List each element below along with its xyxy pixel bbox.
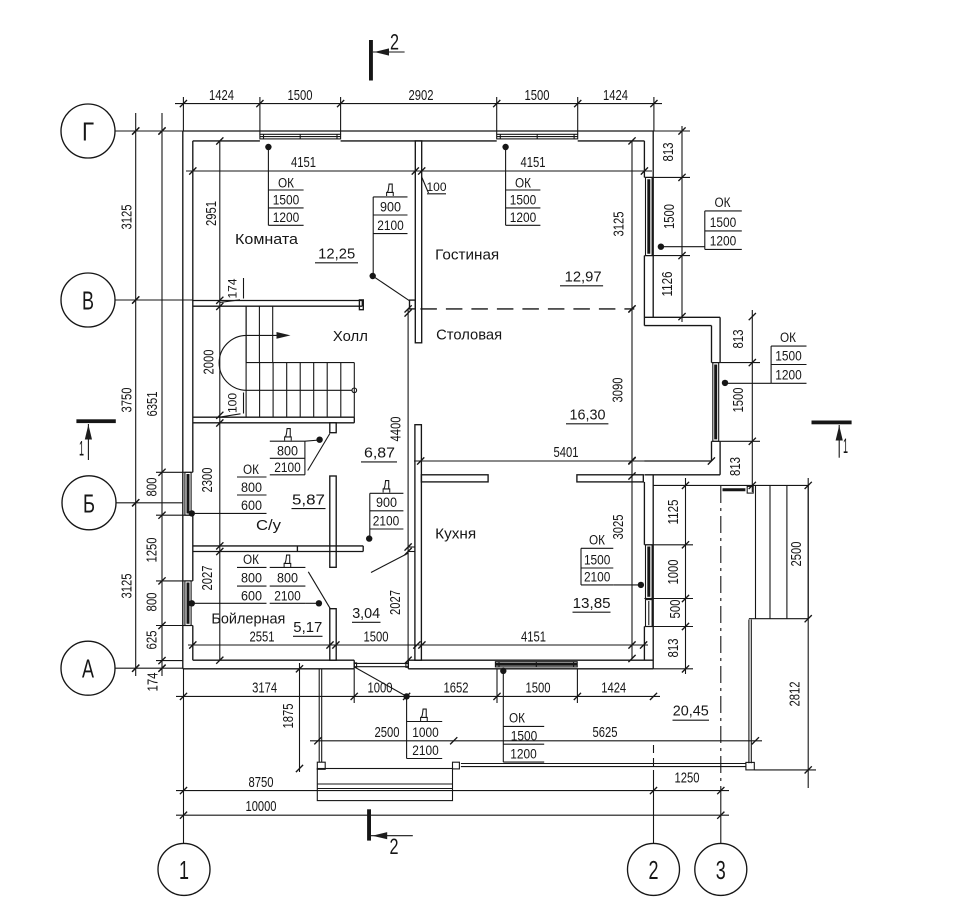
dim chain 8750/1250 bbox=[176, 770, 729, 795]
svg-text:2100: 2100 bbox=[584, 569, 611, 584]
svg-text:2027: 2027 bbox=[199, 566, 216, 591]
dim chain terrace 2500/2812 bbox=[754, 478, 816, 788]
axis circle 2 bbox=[628, 843, 680, 895]
svg-text:Д: Д bbox=[284, 426, 292, 441]
area 12,25 bbox=[315, 247, 358, 263]
svg-text:100: 100 bbox=[226, 393, 240, 413]
svg-text:3750: 3750 bbox=[119, 388, 136, 413]
stair upper flight treads bbox=[246, 306, 273, 362]
svg-text:2100: 2100 bbox=[373, 513, 400, 528]
svg-text:3125: 3125 bbox=[611, 212, 628, 237]
svg-text:С/у: С/у bbox=[256, 517, 282, 534]
wall left outer face bbox=[182, 131, 184, 669]
svg-text:Д: Д bbox=[383, 478, 391, 493]
wall east outer face bbox=[652, 131, 654, 669]
svg-text:1424: 1424 bbox=[601, 680, 626, 697]
dashed line Гостиная-Столовая bbox=[420, 305, 635, 312]
axis 1 line bottom bbox=[183, 669, 185, 843]
label box OK east Кухня bbox=[581, 533, 644, 588]
svg-text:800: 800 bbox=[241, 570, 262, 585]
section marker 1 left bbox=[76, 419, 115, 460]
svg-text:Г: Г bbox=[82, 117, 94, 147]
svg-text:800: 800 bbox=[144, 478, 161, 497]
window OK left Бойлерная 800x600 bbox=[183, 581, 193, 626]
label box OK window Комната bbox=[265, 144, 303, 226]
svg-text:Кухня: Кухня bbox=[435, 526, 476, 543]
svg-text:174: 174 bbox=[226, 278, 240, 298]
room Столовая bbox=[436, 327, 502, 344]
svg-text:2100: 2100 bbox=[274, 588, 301, 603]
svg-text:2: 2 bbox=[390, 834, 399, 859]
axis Б line bbox=[116, 499, 183, 506]
axis circle 3 bbox=[695, 843, 747, 895]
svg-text:Комната: Комната bbox=[235, 231, 299, 248]
svg-text:3025: 3025 bbox=[610, 515, 627, 540]
dim interior left 2951/2000/2300/2027 bbox=[199, 137, 224, 663]
bay bottom wall bbox=[644, 461, 720, 475]
svg-text:1: 1 bbox=[843, 435, 848, 458]
svg-text:600: 600 bbox=[241, 498, 262, 513]
svg-text:1500: 1500 bbox=[273, 193, 300, 208]
axis circle А bbox=[61, 641, 115, 695]
svg-text:2551: 2551 bbox=[250, 628, 275, 645]
svg-text:1200: 1200 bbox=[510, 210, 537, 225]
window OK left Су 800x600 bbox=[183, 472, 193, 515]
area 20,45 bbox=[673, 704, 710, 721]
svg-text:2100: 2100 bbox=[274, 460, 301, 475]
dim interior 4400/2027 bbox=[387, 305, 415, 664]
door leaf Д1000 entrance bbox=[354, 667, 406, 697]
door leaf Д900 Холл-Столовая bbox=[373, 276, 410, 301]
svg-text:А: А bbox=[82, 654, 94, 684]
svg-text:8750: 8750 bbox=[249, 774, 274, 791]
door jamb Д900 top bbox=[410, 300, 416, 309]
svg-text:1: 1 bbox=[79, 438, 84, 461]
room Комната bbox=[235, 231, 299, 248]
svg-text:12,97: 12,97 bbox=[565, 270, 602, 286]
svg-text:1250: 1250 bbox=[144, 538, 161, 563]
svg-text:3,04: 3,04 bbox=[352, 606, 380, 622]
svg-text:2: 2 bbox=[649, 855, 659, 885]
svg-text:4400: 4400 bbox=[388, 417, 405, 442]
svg-text:ОК: ОК bbox=[509, 711, 525, 726]
svg-text:813: 813 bbox=[660, 143, 677, 162]
entrance threshold bbox=[354, 663, 408, 667]
area 12,97 bbox=[560, 270, 603, 286]
svg-text:4151: 4151 bbox=[521, 628, 546, 645]
section marker 1 right bbox=[812, 421, 852, 459]
svg-text:3174: 3174 bbox=[252, 680, 277, 697]
svg-text:Б: Б bbox=[83, 488, 95, 518]
label box OK Су bbox=[189, 462, 267, 517]
dim chain bay 813/1500/813 bbox=[720, 310, 760, 492]
svg-text:1000: 1000 bbox=[412, 725, 439, 740]
svg-text:Гостиная: Гостиная bbox=[435, 247, 499, 264]
terrace steps right bbox=[749, 485, 808, 618]
svg-text:10000: 10000 bbox=[246, 798, 277, 815]
svg-text:1200: 1200 bbox=[510, 747, 537, 762]
terrace east edge bbox=[749, 620, 751, 764]
dim chain left 3125/3750/3125 bbox=[119, 113, 140, 676]
svg-text:Холл: Холл bbox=[333, 328, 368, 345]
svg-text:ОК: ОК bbox=[243, 552, 259, 567]
svg-text:2027: 2027 bbox=[387, 590, 404, 615]
svg-text:3125: 3125 bbox=[119, 574, 136, 599]
svg-text:1500: 1500 bbox=[584, 552, 611, 567]
dim chain bottom 3174/1000/1652/1500/1424 bbox=[176, 669, 660, 703]
svg-text:6351: 6351 bbox=[144, 392, 161, 417]
svg-text:5,87: 5,87 bbox=[292, 492, 325, 508]
room Гостиная bbox=[435, 247, 499, 264]
dim chain 10000 bbox=[176, 798, 729, 819]
svg-text:1000: 1000 bbox=[665, 560, 682, 585]
svg-text:2100: 2100 bbox=[412, 743, 439, 758]
svg-text:1652: 1652 bbox=[444, 680, 469, 697]
svg-text:3090: 3090 bbox=[610, 378, 627, 403]
partition Кухня north left bbox=[421, 475, 488, 482]
bay window 1500 bbox=[712, 363, 721, 442]
axis 3 line bottom bbox=[720, 486, 722, 843]
svg-text:100: 100 bbox=[427, 180, 447, 194]
label box Д800 Су bbox=[270, 426, 323, 475]
svg-text:4151: 4151 bbox=[521, 154, 546, 171]
area 6,87 bbox=[361, 446, 397, 462]
label box OK east Гостиная bbox=[658, 195, 742, 250]
label box Д1000 entrance bbox=[403, 693, 442, 758]
svg-text:800: 800 bbox=[144, 593, 161, 612]
svg-text:1875: 1875 bbox=[280, 704, 297, 729]
room Бойлерная bbox=[211, 611, 285, 628]
door jamb Су bbox=[330, 423, 336, 433]
svg-text:2500: 2500 bbox=[375, 724, 400, 741]
svg-text:1500: 1500 bbox=[710, 215, 737, 230]
axis circle Г bbox=[61, 104, 115, 158]
room Холл bbox=[333, 328, 368, 345]
svg-text:900: 900 bbox=[376, 495, 397, 510]
svg-text:2: 2 bbox=[390, 30, 399, 55]
svg-text:1500: 1500 bbox=[526, 680, 551, 697]
axis circle Б bbox=[62, 476, 116, 530]
axis circle 1 bbox=[158, 843, 210, 895]
svg-text:ОК: ОК bbox=[515, 175, 531, 190]
partition Кухня north right bbox=[577, 475, 643, 482]
svg-text:1500: 1500 bbox=[288, 87, 313, 104]
svg-text:16,30: 16,30 bbox=[570, 408, 606, 424]
svg-text:900: 900 bbox=[380, 200, 401, 215]
label box Д800 Бойлерная bbox=[270, 552, 322, 607]
dim chain top 1424/1500/2902/1500/1424 bbox=[175, 87, 662, 135]
axis 2 line bottom bbox=[653, 745, 655, 843]
svg-text:800: 800 bbox=[241, 480, 262, 495]
porch post left bbox=[317, 762, 325, 769]
area 16,30 bbox=[566, 408, 608, 424]
door jamb end Комната bbox=[359, 300, 363, 310]
svg-text:1500: 1500 bbox=[364, 628, 389, 645]
svg-text:6,87: 6,87 bbox=[364, 446, 395, 462]
area 13,85 bbox=[573, 596, 611, 612]
section marker 2 top bbox=[369, 30, 405, 81]
svg-text:ОК: ОК bbox=[243, 462, 259, 477]
partition Холл-Су bbox=[193, 417, 354, 423]
porch steps outline bbox=[317, 769, 452, 801]
dim chain left 6351/800/1250/800/625/174 bbox=[144, 113, 183, 692]
svg-text:813: 813 bbox=[727, 457, 744, 476]
svg-text:600: 600 bbox=[241, 588, 262, 603]
svg-text:1424: 1424 bbox=[209, 87, 234, 104]
area 3,04 bbox=[352, 606, 381, 622]
axis А line bbox=[115, 665, 183, 672]
area 5,17 bbox=[293, 620, 323, 636]
partition Су-Бойлерная bbox=[193, 546, 363, 552]
svg-text:Д: Д bbox=[420, 706, 428, 721]
svg-text:5,17: 5,17 bbox=[293, 620, 322, 636]
wall top outer face (axis Г) bbox=[183, 130, 654, 132]
label box OK bay bbox=[722, 330, 807, 386]
dim interior 4151 4151 bbox=[186, 154, 652, 175]
dim interior 5401 bbox=[414, 444, 715, 465]
section marker 2 bottom bbox=[367, 809, 413, 859]
svg-text:1500: 1500 bbox=[775, 349, 802, 364]
svg-text:1000: 1000 bbox=[368, 680, 393, 697]
svg-text:800: 800 bbox=[277, 443, 298, 458]
svg-text:Д: Д bbox=[386, 181, 394, 196]
svg-text:3: 3 bbox=[716, 855, 726, 885]
svg-text:174: 174 bbox=[145, 673, 162, 692]
svg-text:1125: 1125 bbox=[665, 500, 682, 525]
window OK east (Гостиная) 1500x1200 bbox=[644, 177, 653, 255]
svg-text:1500: 1500 bbox=[661, 204, 678, 229]
axis В line bbox=[115, 296, 193, 303]
room Кухня bbox=[435, 526, 476, 543]
axis circle В bbox=[61, 273, 115, 327]
dim interior right 3125/3090/3025 bbox=[610, 137, 636, 662]
partition central upper 100 bbox=[415, 141, 421, 343]
area 5,87 bbox=[292, 492, 326, 508]
svg-text:800: 800 bbox=[277, 570, 298, 585]
svg-text:5401: 5401 bbox=[554, 444, 579, 461]
wall Су east upper bbox=[330, 476, 336, 567]
svg-text:813: 813 bbox=[730, 330, 747, 349]
svg-text:1250: 1250 bbox=[675, 770, 700, 787]
svg-text:4151: 4151 bbox=[291, 154, 316, 171]
svg-text:2902: 2902 bbox=[409, 87, 434, 104]
wall Кухня west (partition central lower) bbox=[415, 425, 422, 661]
svg-text:2951: 2951 bbox=[203, 201, 220, 226]
svg-text:Бойлерная: Бойлерная bbox=[211, 611, 285, 628]
porch west wall bbox=[319, 669, 322, 762]
bay top wall bbox=[644, 317, 720, 325]
svg-text:13,85: 13,85 bbox=[573, 596, 611, 612]
svg-text:ОК: ОК bbox=[780, 330, 796, 345]
window OK east (Кухня) 1500x2100 bbox=[644, 545, 653, 599]
svg-text:ОК: ОК bbox=[278, 175, 294, 190]
door leaf Д800 Бойлерная bbox=[308, 572, 330, 608]
svg-text:20,45: 20,45 bbox=[673, 704, 709, 720]
window OK2 top (Гостиная) 1500x1200 bbox=[497, 134, 578, 139]
terrace railing at bay bbox=[723, 486, 754, 493]
partition Комната-Холл bbox=[193, 301, 362, 307]
svg-text:1: 1 bbox=[179, 855, 189, 885]
svg-text:ОК: ОК bbox=[589, 533, 605, 548]
svg-text:2000: 2000 bbox=[201, 350, 218, 375]
axis Г line bbox=[115, 127, 183, 134]
terrace top edge bbox=[653, 484, 808, 486]
wall bottom (axis А) outer face bbox=[183, 668, 653, 670]
door leaf Д800 Су bbox=[308, 434, 330, 471]
label 100 partition top bbox=[422, 177, 447, 195]
svg-text:1500: 1500 bbox=[730, 388, 747, 413]
svg-text:ОК: ОК bbox=[715, 195, 731, 210]
svg-text:2812: 2812 bbox=[787, 682, 804, 707]
svg-text:Столовая: Столовая bbox=[436, 327, 502, 344]
label box Д900 Кухня bbox=[366, 478, 403, 542]
svg-text:1126: 1126 bbox=[659, 272, 676, 297]
door leaf Д900 Кухня bbox=[371, 553, 409, 573]
svg-text:1500: 1500 bbox=[511, 729, 538, 744]
window OK bottom (Кухня юж) 1500x1200 bbox=[495, 662, 577, 667]
svg-text:813: 813 bbox=[665, 639, 682, 658]
svg-text:1200: 1200 bbox=[710, 234, 737, 249]
porch post right bbox=[453, 762, 460, 769]
svg-text:2300: 2300 bbox=[199, 468, 216, 493]
stair lower flight treads bbox=[246, 306, 354, 417]
wall Су east lower bbox=[330, 609, 336, 661]
label box OK bottom bbox=[500, 668, 544, 762]
deck south edge bbox=[461, 762, 754, 770]
wall east inner face bbox=[643, 141, 645, 660]
label box OK window Гостиная bbox=[502, 144, 540, 226]
dim 1875 porch bbox=[280, 663, 303, 772]
label 174 stair top bbox=[220, 278, 244, 303]
label box OK Бойлерная bbox=[189, 552, 267, 607]
svg-text:2100: 2100 bbox=[377, 218, 404, 233]
wall top inner face segments bbox=[193, 140, 645, 142]
dim chain kitchen east 1125/1000/500/813 bbox=[653, 478, 693, 674]
dim interior 2551/1500/4151 bbox=[188, 628, 648, 648]
svg-text:1500: 1500 bbox=[510, 193, 537, 208]
label 100 stair bottom bbox=[220, 393, 244, 418]
wall bottom inner face bbox=[193, 660, 653, 669]
svg-text:625: 625 bbox=[144, 631, 161, 650]
dim chain 2500/5625 bbox=[310, 724, 762, 745]
room Су bbox=[256, 517, 282, 534]
svg-text:5625: 5625 bbox=[593, 724, 618, 741]
bay right wall bbox=[712, 317, 721, 475]
wall left inner face segments bbox=[192, 141, 194, 660]
svg-text:В: В bbox=[82, 286, 94, 316]
dim chain right 813/1500/1126 bbox=[653, 126, 690, 322]
svg-text:1500: 1500 bbox=[525, 87, 550, 104]
svg-text:1200: 1200 bbox=[273, 210, 300, 225]
svg-text:1200: 1200 bbox=[775, 367, 802, 382]
svg-text:Д: Д bbox=[284, 552, 292, 567]
window east small 500 bbox=[644, 600, 653, 627]
svg-text:12,25: 12,25 bbox=[318, 247, 355, 263]
svg-text:500: 500 bbox=[667, 600, 684, 619]
window OK1 top (Комната) 1500x1200 bbox=[260, 134, 341, 139]
svg-text:1424: 1424 bbox=[603, 87, 628, 104]
stair direction line bbox=[219, 332, 356, 393]
svg-text:2500: 2500 bbox=[788, 542, 805, 567]
label box Д900 Столовая bbox=[370, 181, 408, 279]
svg-text:3125: 3125 bbox=[119, 205, 136, 230]
